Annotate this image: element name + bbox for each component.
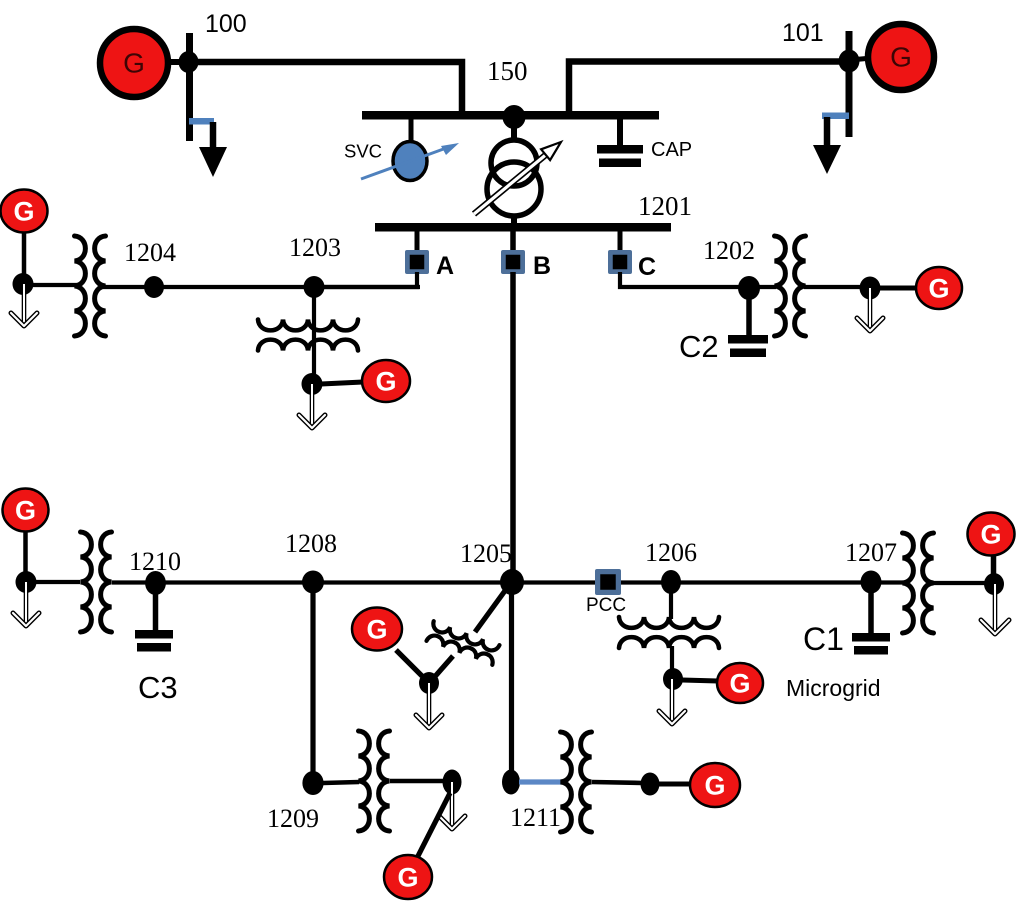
label B [533, 252, 551, 280]
transformer T-1209 [359, 731, 390, 831]
label C3 [138, 670, 178, 705]
wire main feeder left [34, 580, 80, 584]
label 1204 [124, 238, 176, 267]
transformer T1 circle 2 [487, 162, 541, 216]
svg-text:C1: C1 [803, 621, 844, 657]
wire node to G7 [396, 650, 422, 676]
load arrow white 1202 [857, 288, 883, 331]
transformer T-1202 [775, 236, 806, 336]
load tick bus 100 [189, 118, 214, 125]
wire transformer to 1204 to 1203 [103, 285, 420, 289]
svg-text:1203: 1203 [289, 233, 341, 262]
capacitor CAP stem [617, 119, 623, 147]
label C [638, 253, 656, 281]
svg-text:G: G [13, 197, 34, 227]
bus 1201 [375, 223, 671, 232]
svg-text:B: B [533, 252, 551, 280]
node far right feeder [984, 573, 1004, 595]
wire 1209 to transformer [323, 782, 359, 783]
svg-text:SVC: SVC [344, 141, 382, 162]
wire node to G11 [659, 782, 692, 787]
node 1202 [738, 276, 760, 300]
bus 100 [186, 33, 193, 141]
node 1205 [500, 569, 524, 595]
label SVC [344, 141, 382, 162]
svg-text:150: 150 [487, 56, 528, 86]
node 1203 [304, 276, 325, 298]
capacitor C1 [852, 633, 890, 655]
svg-text:G: G [375, 367, 396, 397]
node bus 150 [503, 105, 526, 129]
load arrow white 1206 [659, 679, 685, 724]
capacitor C2 [728, 335, 768, 357]
generator G8 [717, 663, 763, 703]
label 1201 [638, 191, 692, 221]
svg-text:1208: 1208 [285, 529, 337, 558]
label 1210 [129, 547, 181, 576]
node below 1203 [302, 373, 323, 395]
generator G3 [1, 190, 48, 233]
capacitor C3 [135, 630, 173, 652]
svg-text:G: G [123, 48, 145, 79]
svg-text:Microgrid: Microgrid [786, 675, 881, 701]
node right of T-1211 [641, 773, 660, 796]
svg-text:A: A [436, 252, 454, 280]
capacitor CAP [597, 145, 643, 167]
transformer T1 tap arrow [474, 142, 561, 214]
wire 1203 down [312, 296, 316, 378]
breaker A stem [415, 231, 420, 252]
wire 1205 down to 1211 [509, 594, 514, 774]
wire transformer to node [804, 285, 862, 289]
svg-text:G: G [397, 863, 418, 893]
svg-text:CAP: CAP [651, 139, 692, 161]
wire 1205 diagonal to microgrid node [431, 588, 507, 681]
SVC arrow [361, 143, 459, 179]
wire breaker A to 1203 line [320, 272, 417, 287]
node 1209 [302, 771, 323, 795]
breaker C stem [618, 231, 623, 252]
label 1211 [510, 803, 561, 832]
wire 1208 down to 1209 [310, 592, 315, 774]
load arrow white G3 [11, 284, 37, 326]
svg-text:1202: 1202 [703, 236, 755, 265]
label Microgrid [786, 675, 881, 701]
node far left feeder [16, 571, 37, 593]
label A [436, 252, 454, 280]
node 1204 [144, 276, 164, 298]
wire transformer to node [592, 782, 643, 783]
svg-text:G: G [980, 520, 1001, 550]
svg-text:1207: 1207 [845, 538, 897, 567]
svg-text:C3: C3 [138, 670, 178, 705]
wire main feeder 1207 to transformer [878, 580, 903, 584]
node bus 100 [179, 51, 199, 73]
reactor 1205 diagonal (rotated transformer) [427, 621, 500, 665]
wire node to transformer 1204 [33, 283, 78, 287]
label 100 [205, 10, 247, 38]
load arrow white far right [981, 584, 1009, 634]
load arrow white far left [13, 582, 39, 626]
wire node101 to G2 stub [850, 58, 872, 60]
generator G5 [916, 267, 962, 309]
load tick bus 101 [822, 113, 849, 120]
node 1207 [861, 571, 882, 594]
wire node diagonal to G10 [417, 793, 450, 858]
wire main feeder 1210-1208-1205 [112, 580, 505, 584]
generator G11 [690, 763, 740, 807]
wire node to G5 [879, 286, 917, 291]
generator G2 [868, 24, 934, 90]
load arrow bus 101 [813, 117, 841, 174]
reactor 1203 (rotated transformer) [258, 320, 358, 351]
svg-text:G: G [729, 669, 750, 699]
breaker B stem [510, 231, 516, 252]
breaker B [501, 250, 525, 274]
node 1211 [502, 770, 520, 795]
transformer T-1204 [75, 236, 106, 336]
label 1202 [703, 236, 755, 265]
svg-text:1205: 1205 [460, 539, 512, 568]
node microgrid gen tie [419, 672, 439, 694]
load arrow bus 100 [199, 122, 227, 177]
generator G6 [3, 489, 49, 532]
label 1207 [845, 538, 897, 567]
label 1209 [267, 804, 319, 833]
svg-text:101: 101 [782, 19, 824, 47]
node right of T-1209 [443, 770, 462, 795]
breaker C [608, 250, 632, 274]
bus 101 [846, 31, 853, 137]
node 1208 [302, 571, 324, 594]
svg-text:1204: 1204 [124, 238, 176, 267]
generator G9 [968, 513, 1015, 556]
node G3 [13, 273, 34, 295]
wire main feeder 1205-PCC-1206-1207 [518, 580, 866, 584]
label 1205 [460, 539, 512, 568]
wire breaker C to node 1202 [620, 272, 744, 287]
node below 1206 [663, 668, 683, 690]
transformer T-C3 [81, 532, 112, 632]
svg-text:1210: 1210 [129, 547, 181, 576]
wire reactor to node [670, 646, 674, 670]
label 150 [487, 56, 528, 86]
reactor 1206 (rotated transformer) [619, 617, 719, 648]
svg-text:C2: C2 [679, 329, 719, 364]
svg-text:C: C [638, 253, 656, 281]
label PCC [586, 595, 626, 616]
svg-text:100: 100 [205, 10, 247, 38]
label 1203 [289, 233, 341, 262]
label CAP [651, 139, 692, 161]
svg-text:G: G [704, 771, 725, 801]
generator G1 stub wire [160, 59, 182, 65]
wire corner riser to bus 101 [569, 62, 840, 114]
node 1210 [145, 571, 166, 595]
wire transformer to right node [931, 581, 987, 585]
svg-text:G: G [15, 496, 36, 526]
capacitor C3 stem [153, 594, 159, 633]
label 1206 [645, 538, 697, 567]
wire G6 stem [23, 531, 28, 572]
svg-text:1201: 1201 [638, 191, 692, 221]
SVC stem wire [409, 119, 414, 144]
label 101 [782, 19, 824, 47]
wire breaker B down to 1205 [510, 272, 516, 578]
wire node to G8 [682, 680, 718, 681]
breaker PCC [595, 569, 621, 595]
capacitor C2 stem [746, 297, 752, 338]
load arrow white 1209 [439, 782, 465, 829]
load arrow white 1205 branch [416, 683, 442, 728]
svg-text:G: G [928, 274, 949, 304]
transformer T1 circle 1 [491, 140, 537, 186]
wire G9 stem [991, 555, 997, 574]
svg-text:G: G [366, 615, 387, 645]
wire 1211 blue link [519, 779, 563, 784]
node 1206 [661, 570, 681, 594]
label C2 [679, 329, 719, 364]
node bus 101 [839, 50, 860, 73]
svg-text:1206: 1206 [645, 538, 697, 567]
transformer T1 stem bottom [511, 214, 517, 228]
wire bus100 to corner to bus 150 [193, 62, 462, 113]
wire node to G4 [321, 382, 363, 384]
SVC device [393, 142, 427, 181]
wire G3 stem [22, 232, 27, 274]
bus 150 [362, 111, 659, 120]
svg-text:1209: 1209 [267, 804, 319, 833]
wire 1202 to transformer [758, 285, 776, 289]
svg-text:1211: 1211 [510, 803, 561, 832]
generator G10 [384, 855, 432, 899]
generator G4 [362, 360, 410, 402]
wire transformer to node [390, 779, 445, 784]
generator G7 [352, 608, 402, 651]
node right of T-1202 [860, 277, 881, 300]
transformer T-1211 [561, 732, 592, 832]
svg-text:PCC: PCC [586, 595, 626, 616]
capacitor C1 stem [868, 593, 874, 635]
svg-text:G: G [890, 42, 912, 73]
transformer T-1207 [903, 533, 934, 633]
breaker A [405, 250, 429, 274]
label 1208 [285, 529, 337, 558]
transformer T1 stem top [511, 125, 517, 142]
load arrow white 1203 [299, 384, 325, 428]
label C1 [803, 621, 844, 657]
generator G1 [100, 29, 168, 97]
wire 1206 down [669, 593, 673, 619]
